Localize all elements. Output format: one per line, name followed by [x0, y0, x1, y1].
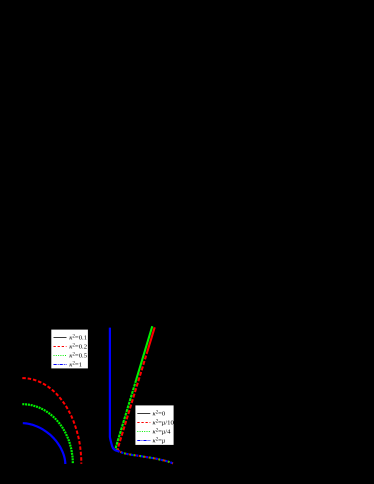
svg-text:κ2=1: κ2=1 — [69, 362, 82, 369]
left plot: green dotted curve k2=0.5 — [22, 404, 73, 464]
svg-text:κ2=0.1: κ2=0.1 — [69, 335, 87, 342]
svg-text:κ2=0: κ2=0 — [153, 411, 166, 418]
right legend box — [135, 405, 174, 445]
left plot: red dashed curve k2=0.2 — [22, 378, 81, 464]
svg-text:κ2=μ/4: κ2=μ/4 — [153, 429, 172, 436]
right plot: blue dash-dot curve k2=mu (vertical + bend) — [110, 328, 120, 452]
svg-text:κ2=0.2: κ2=0.2 — [69, 344, 87, 351]
right plot: green dotted curve k2=mu/4 (rising line, upper) — [136, 326, 152, 380]
left legend box — [51, 330, 88, 369]
left plot: blue dash-dot curve k2=1 — [23, 423, 66, 464]
svg-text:κ2=0.5: κ2=0.5 — [69, 353, 87, 360]
svg-text:κ2=μ: κ2=μ — [153, 438, 166, 445]
right plot: red dashed curve k2=mu/10 (rising line, upper) — [147, 327, 155, 352]
right plot: blue dash-dot curve k2=mu (tail) — [119, 452, 173, 464]
right plot: red dashed curve k2=mu/10 (rising line, lower) — [118, 352, 147, 452]
right plot: green dotted curve k2=mu/4 (tail) — [118, 451, 173, 463]
right plot: green dotted curve k2=mu/4 (rising line, lower) — [116, 380, 137, 451]
right plot: red dashed curve k2=mu/10 (tail) — [120, 452, 173, 464]
